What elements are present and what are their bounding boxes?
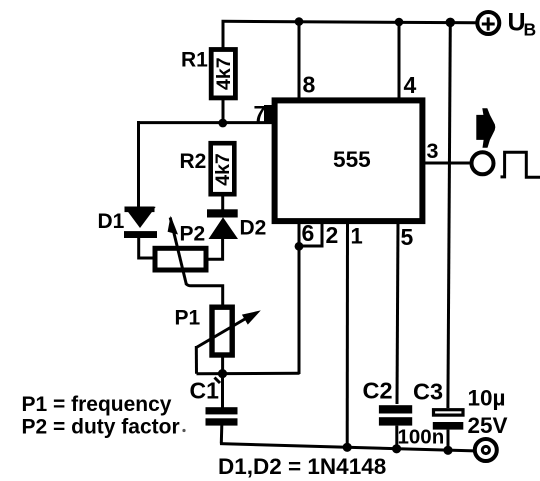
diode D1 anode top bar: [125, 207, 155, 213]
resistor R2: [211, 143, 235, 194]
capacitor C1 bottom plate: [206, 418, 238, 425]
svg-text:P2 = duty factor: P2 = duty factor: [22, 416, 180, 439]
node junction dot C3/ground: [443, 446, 452, 455]
capacitor C3 bottom plate: [433, 422, 464, 430]
wire R2 bottom to D2: [221, 194, 224, 211]
svg-text:6: 6: [302, 220, 315, 246]
capacitor C1 top plate: [206, 407, 238, 414]
potentiometer P2 wiper line: [170, 218, 186, 285]
wire pin 4 vertical: [398, 22, 401, 101]
diode D2 cathode bar: [207, 209, 238, 217]
diode D1 triangle: [124, 207, 155, 228]
svg-text:D2: D2: [240, 217, 267, 240]
wire pin 5 vertical to C2: [397, 221, 398, 404]
node junction dot pin8/rail: [295, 17, 304, 26]
wire D1 top vertical: [137, 121, 140, 208]
potentiometer P1 wiper arrowhead: [242, 310, 261, 324]
svg-text:3: 3: [427, 139, 439, 163]
svg-text:C3: C3: [413, 379, 443, 405]
wire D2 anode to P2 right terminal: [207, 238, 223, 259]
svg-text:R1: R1: [181, 49, 208, 72]
svg-text:B: B: [524, 20, 537, 40]
svg-text:R2: R2: [180, 150, 207, 173]
svg-text:4k7: 4k7: [212, 153, 234, 186]
op-amp/timer U1 555 box: [275, 100, 423, 221]
diode D2 triangle: [209, 217, 239, 239]
wire pin 7 horizontal: [137, 121, 274, 124]
output terminal circle: [472, 152, 494, 174]
svg-text:P1: P1: [175, 307, 201, 330]
output fat arrow icon: [476, 108, 495, 148]
resistor R1: [211, 50, 235, 98]
node junction dot C2/ground: [392, 444, 401, 453]
wire pin 1 vertical to ground: [346, 221, 349, 449]
svg-text:C1: C1: [190, 378, 220, 404]
svg-text:555: 555: [333, 147, 371, 172]
node junction dot P1/C1: [218, 369, 227, 378]
svg-text:D1: D1: [98, 210, 125, 233]
capacitor C2 bottom plate: [379, 417, 412, 425]
svg-text:P1 = frequency: P1 = frequency: [22, 393, 172, 416]
wire C1 bottom to ground rail: [220, 425, 224, 444]
wire C1 top: [221, 374, 224, 408]
svg-text:C2: C2: [363, 377, 393, 403]
wire D1 cathode to P2 left terminal: [139, 237, 154, 258]
potentiometer P1 body: [212, 307, 232, 355]
svg-text:25V: 25V: [468, 413, 508, 438]
svg-text:10µ: 10µ: [468, 386, 506, 411]
wire horizontal pin6 branch to P1 bottom: [197, 372, 300, 376]
pin 7 stub on box: [264, 105, 277, 124]
potentiometer P2 wiper arrowhead: [168, 216, 178, 235]
wire pin 6 vertical: [298, 221, 301, 374]
supply terminal +UB circle: [477, 12, 499, 34]
svg-text:5: 5: [401, 224, 414, 250]
svg-text:4: 4: [404, 72, 417, 98]
wire C3 bottom to ground rail: [447, 430, 450, 451]
speck after duty factor: [182, 429, 185, 432]
wire C3 branch vertical (rail to C3): [448, 22, 450, 408]
node junction dot C3-branch/rail: [446, 18, 456, 28]
wire C2 bottom to ground rail: [395, 426, 398, 449]
diode D1 cathode bar: [124, 231, 157, 238]
node junction dot R1/R2/pin7: [218, 119, 227, 128]
wire pin 3 output: [425, 162, 471, 165]
node junction dot pin6/pin2: [295, 242, 304, 251]
svg-text:1: 1: [351, 224, 363, 249]
wire top supply rail: [222, 21, 477, 23]
wire P1 wiper down to bottom node: [195, 346, 198, 374]
capacitor C3 top plate (electrolytic, outlined): [434, 410, 464, 415]
svg-text:2: 2: [326, 222, 339, 248]
svg-text:8: 8: [303, 72, 316, 98]
svg-text:P2: P2: [180, 223, 206, 246]
wire pin 2 to pin 6: [299, 221, 322, 246]
svg-text:D1,D2 = 1N4148: D1,D2 = 1N4148: [218, 454, 386, 479]
scratch mark near C1: [215, 378, 221, 384]
wire P2 wiper to P1 top: [186, 284, 223, 309]
wire R1 bottom to node: [222, 97, 225, 125]
svg-text:100n: 100n: [398, 426, 445, 449]
capacitor C2 top plate: [379, 405, 412, 413]
svg-text:7: 7: [254, 102, 266, 127]
wire ground rail: [220, 444, 475, 451]
ground terminal inner o: [482, 446, 489, 453]
potentiometer P1 wiper line: [196, 316, 250, 348]
svg-text:4k7: 4k7: [213, 57, 235, 90]
plus sign inside UB terminal: [482, 17, 495, 30]
node junction dot pin4/rail: [395, 18, 404, 27]
wire pin 8 vertical: [298, 22, 301, 101]
wire P1 bottom: [221, 355, 224, 374]
potentiometer P2 body: [155, 248, 206, 270]
node junction dot pin1/ground: [343, 443, 352, 452]
wire R1 top stub: [222, 20, 225, 49]
square wave symbol: [501, 152, 540, 177]
ground terminal circle: [475, 439, 497, 461]
